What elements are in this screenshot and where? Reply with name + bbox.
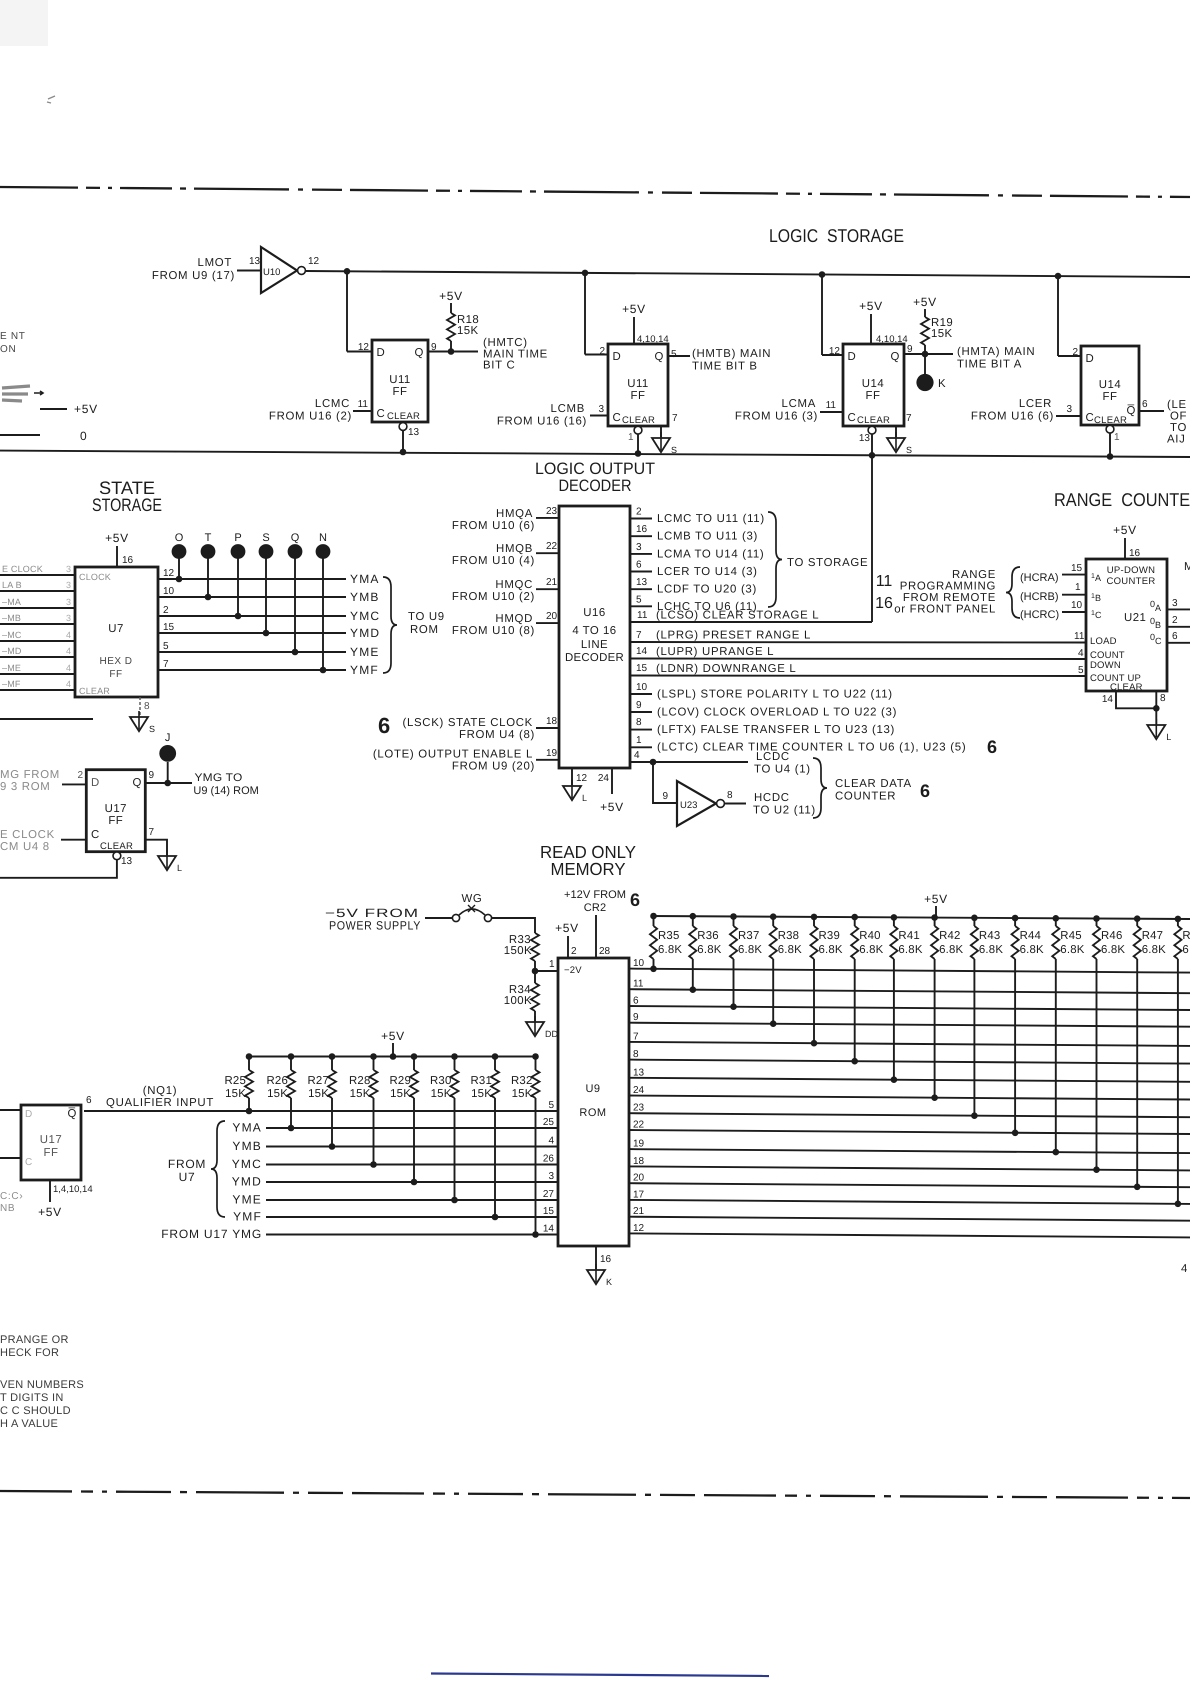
svg-text:LCMA: LCMA bbox=[782, 398, 816, 410]
svg-text:FROM U10 (6): FROM U10 (6) bbox=[452, 520, 535, 532]
svg-text:DD: DD bbox=[545, 1029, 558, 1039]
input HMQD to U16 bbox=[452, 611, 559, 637]
wire U9 output pin 8 bus bbox=[629, 1049, 1190, 1064]
node R33/R34/pin1 junction bbox=[532, 959, 558, 983]
svg-text:18: 18 bbox=[546, 716, 558, 727]
wire YMD from U7 bbox=[158, 622, 380, 640]
svg-text:LINE: LINE bbox=[581, 639, 608, 651]
label -5V FROM POWER SUPPLY bbox=[325, 906, 421, 933]
svg-text:CLEAR: CLEAR bbox=[857, 415, 890, 426]
node R19/Q junction bbox=[922, 351, 929, 358]
U21 clear pins 14/8 to ground L bbox=[1102, 691, 1171, 742]
svg-text:YME: YME bbox=[350, 645, 380, 659]
svg-text:6.8K: 6.8K bbox=[658, 944, 682, 956]
svg-text:H A VALUE: H A VALUE bbox=[0, 1418, 58, 1430]
svg-text:R41: R41 bbox=[898, 930, 920, 942]
svg-text:–MB: –MB bbox=[2, 613, 21, 623]
svg-text:FF: FF bbox=[44, 1147, 59, 1159]
svg-text:R: R bbox=[1182, 930, 1190, 942]
svg-text:17: 17 bbox=[633, 1189, 645, 1200]
svg-text:2: 2 bbox=[636, 507, 642, 518]
label (HMTA) MAIN TIME BIT A bbox=[957, 346, 1035, 371]
svg-text:N: N bbox=[319, 532, 327, 544]
svg-text:4: 4 bbox=[1078, 648, 1084, 659]
svg-text:R47: R47 bbox=[1142, 930, 1164, 942]
input HMQC to U16 bbox=[452, 577, 559, 603]
node U11a D drop bbox=[344, 268, 351, 275]
resistor R41 6.8K bbox=[890, 914, 923, 1083]
wire U17b D input bbox=[0, 1109, 21, 1111]
top border dash-dot rule bbox=[0, 187, 1190, 197]
svg-text:CM U4 8: CM U4 8 bbox=[0, 841, 50, 853]
svg-text:6: 6 bbox=[86, 1095, 92, 1106]
wire YMA into U9 pin 25 bbox=[266, 1117, 558, 1128]
node U14a D drop bbox=[819, 271, 826, 278]
wire U9 output pin 9 bus bbox=[629, 1012, 1190, 1026]
wire YME from U7 bbox=[158, 641, 380, 659]
wire down to U23 input bbox=[653, 762, 677, 803]
svg-text:Q̅: Q̅ bbox=[1126, 404, 1136, 417]
wire YMD into U9 pin 3 bbox=[266, 1171, 558, 1182]
svg-text:16: 16 bbox=[636, 524, 648, 535]
wire NQ1 into U9 pin 5 bbox=[84, 1100, 558, 1111]
svg-text:8: 8 bbox=[636, 717, 642, 728]
svg-text:LMOT: LMOT bbox=[198, 257, 232, 269]
svg-text:15K: 15K bbox=[471, 1088, 492, 1100]
svg-text:U11: U11 bbox=[389, 374, 411, 386]
input (LSCK) STATE CLOCK pin 18 bbox=[378, 713, 559, 741]
svg-text:HMQC: HMQC bbox=[495, 579, 533, 591]
wire U9 output pin 21 bus bbox=[629, 1206, 1190, 1221]
svg-text:LA B: LA B bbox=[2, 580, 22, 590]
svg-text:(HMTC): (HMTC) bbox=[483, 337, 528, 349]
svg-text:WG: WG bbox=[461, 893, 482, 905]
resistor R44 6.8K bbox=[1011, 915, 1044, 1136]
svg-text:D: D bbox=[25, 1109, 33, 1120]
label LCER FROM U16 (6) bbox=[971, 398, 1073, 423]
label (HMTC) MAIN TIME BIT C bbox=[483, 337, 548, 372]
blue underline mark bbox=[431, 1674, 769, 1677]
svg-text:(LDNR) DOWNRANGE L: (LDNR) DOWNRANGE L bbox=[656, 663, 796, 675]
svg-text:YMF: YMF bbox=[350, 663, 379, 677]
test point K (filled circle) bbox=[916, 354, 946, 391]
U7 clear pin 8 with S arrow bbox=[130, 697, 155, 734]
bottom border dash-dot rule bbox=[0, 1491, 1190, 1498]
svg-text:9: 9 bbox=[662, 791, 668, 802]
svg-text:LCDC: LCDC bbox=[756, 751, 790, 763]
input (LOTE) OUTPUT ENABLE L pin 19 bbox=[373, 748, 559, 773]
faded pin numbers U7 bbox=[66, 564, 71, 689]
svg-text:C: C bbox=[377, 408, 386, 420]
svg-text:LCMC: LCMC bbox=[315, 398, 350, 410]
svg-text:1: 1 bbox=[628, 432, 634, 443]
test point J (filled circle) bbox=[159, 732, 176, 783]
svg-text:1: 1 bbox=[1075, 582, 1081, 593]
inverter U10 bbox=[249, 247, 320, 293]
resistor R30 15K bbox=[430, 1053, 459, 1203]
decoder U16 bbox=[559, 506, 630, 768]
svg-text:1: 1 bbox=[636, 735, 642, 746]
output (LDNR) DOWNRANGE L bbox=[630, 663, 1086, 676]
svg-text:A: A bbox=[1155, 603, 1161, 613]
svg-text:13: 13 bbox=[121, 856, 133, 867]
svg-text:T DIGITS IN: T DIGITS IN bbox=[0, 1392, 64, 1404]
svg-text:C: C bbox=[91, 829, 100, 841]
wire U14a Q output bbox=[904, 353, 953, 355]
svg-text:21: 21 bbox=[546, 577, 558, 588]
svg-text:RANGE: RANGE bbox=[952, 569, 996, 581]
pin 13 bubble U11a bbox=[399, 423, 407, 431]
wire U11b Q output bbox=[668, 355, 690, 357]
svg-text:16: 16 bbox=[875, 595, 893, 612]
svg-text:YMA: YMA bbox=[232, 1121, 262, 1135]
svg-text:11: 11 bbox=[826, 400, 837, 411]
brace TO STORAGE bbox=[768, 512, 868, 607]
svg-text:9: 9 bbox=[633, 1012, 639, 1023]
svg-text:10: 10 bbox=[636, 682, 648, 693]
svg-text:6.8K: 6.8K bbox=[1142, 944, 1166, 956]
pin 13 bubble U14b bbox=[1106, 425, 1114, 433]
label +5V stub left bbox=[40, 402, 98, 416]
brace TO U9 ROM bbox=[383, 577, 445, 673]
svg-text:11: 11 bbox=[637, 610, 648, 621]
resistor R46 6.8K bbox=[1093, 915, 1126, 1173]
wire U9 output pin 13 bus bbox=[629, 1067, 1190, 1082]
svg-text:13: 13 bbox=[636, 577, 648, 588]
wire U11a Q output bbox=[428, 351, 478, 353]
svg-text:R26: R26 bbox=[267, 1075, 289, 1087]
svg-text:(LFTX) FALSE TRANSFER L TO U23: (LFTX) FALSE TRANSFER L TO U23 (13) bbox=[657, 724, 895, 736]
wire U17a Q output bbox=[145, 780, 192, 787]
wire U7 input 2 bbox=[0, 590, 75, 592]
svg-text:FROM U16 (2): FROM U16 (2) bbox=[269, 411, 352, 423]
svg-text:15: 15 bbox=[636, 663, 648, 674]
wire U11b clear to net bbox=[637, 434, 639, 453]
svg-text:D: D bbox=[377, 347, 386, 359]
svg-text:2: 2 bbox=[1172, 615, 1178, 626]
resistor R31 15K bbox=[471, 1053, 500, 1220]
svg-text:6: 6 bbox=[987, 737, 997, 757]
svg-text:BIT C: BIT C bbox=[483, 360, 515, 372]
wire U9 output pin 22 bus bbox=[629, 1120, 1190, 1135]
U21 output 0C pin 6 bbox=[1167, 631, 1190, 643]
svg-text:C: C bbox=[848, 412, 857, 424]
svg-text:13: 13 bbox=[859, 433, 871, 444]
wire U7 input 7 bbox=[0, 673, 75, 675]
wire stub from left at U7 clear row bbox=[0, 718, 93, 720]
label (NQ1) QUALIFIER INPUT bbox=[106, 1085, 214, 1109]
svg-text:FF: FF bbox=[866, 390, 881, 402]
svg-text:22: 22 bbox=[546, 541, 558, 552]
svg-text:FROM U4 (8): FROM U4 (8) bbox=[459, 729, 535, 741]
svg-text:6.8K: 6.8K bbox=[1020, 944, 1044, 956]
wire U7 input 1 bbox=[0, 574, 75, 576]
svg-text:(LCOV) CLOCK OVERLOAD L TO U22: (LCOV) CLOCK OVERLOAD L TO U22 (3) bbox=[657, 707, 897, 719]
svg-text:5: 5 bbox=[548, 1100, 554, 1111]
svg-text:3: 3 bbox=[636, 542, 642, 553]
svg-text:5: 5 bbox=[636, 594, 642, 605]
svg-text:15K: 15K bbox=[431, 1088, 452, 1100]
label 0 wire left bbox=[0, 429, 87, 443]
wire U9 output pin 19 bus bbox=[629, 1139, 1190, 1154]
svg-text:YMB: YMB bbox=[232, 1139, 262, 1153]
brace CLEAR DATA COUNTER bbox=[813, 758, 930, 818]
node U11b D drop bbox=[582, 270, 589, 277]
svg-text:15K: 15K bbox=[390, 1088, 411, 1100]
svg-text:CLEAR: CLEAR bbox=[79, 686, 110, 696]
svg-text:+5V: +5V bbox=[1113, 523, 1137, 537]
svg-text:RANGE COUNTER: RANGE COUNTER bbox=[1054, 489, 1190, 510]
wire U7 input 4 bbox=[0, 623, 75, 625]
wire YMC from U7 bbox=[158, 605, 380, 623]
svg-text:+5V: +5V bbox=[859, 299, 883, 313]
svg-text:R42: R42 bbox=[939, 930, 961, 942]
svg-text:(LPRG) PRESET RANGE L: (LPRG) PRESET RANGE L bbox=[656, 630, 811, 642]
resistor R37 6.8K bbox=[730, 913, 763, 1010]
label LCMB FROM U16 (16) bbox=[497, 403, 605, 428]
resistor R26 15K bbox=[267, 1053, 296, 1131]
svg-text:15K: 15K bbox=[512, 1088, 533, 1100]
resistor R33 150K bbox=[504, 933, 539, 961]
svg-text:Q: Q bbox=[414, 347, 424, 359]
svg-text:C: C bbox=[1095, 610, 1102, 620]
input (HCRA) bbox=[1020, 563, 1086, 584]
svg-text:R45: R45 bbox=[1060, 930, 1082, 942]
svg-text:FROM U16 (3): FROM U16 (3) bbox=[735, 411, 818, 423]
svg-text:U11: U11 bbox=[627, 378, 649, 390]
wire U9 output pin 7 bus bbox=[629, 1031, 1190, 1046]
brace HCR inputs bbox=[1006, 567, 1020, 618]
wire YMF from U7 bbox=[158, 659, 379, 677]
output (LCTC) CLEAR TIME COUNTER L bbox=[630, 735, 997, 757]
wire U17a D input bbox=[62, 783, 86, 785]
output LCHC from U16 bbox=[630, 594, 757, 613]
svg-text:C C SHOULD: C C SHOULD bbox=[0, 1405, 71, 1417]
svg-text:PRANGE OR: PRANGE OR bbox=[0, 1334, 69, 1346]
svg-text:E NT: E NT bbox=[0, 331, 26, 342]
svg-text:4: 4 bbox=[548, 1136, 554, 1147]
svg-text:16: 16 bbox=[1129, 548, 1141, 559]
svg-text:15: 15 bbox=[163, 622, 175, 633]
resistor R36 6.8K bbox=[689, 913, 722, 993]
svg-text:FF: FF bbox=[393, 386, 408, 398]
pin 7 S arrow U11b bbox=[652, 413, 678, 455]
output (LFTX) FALSE TRANSFER L bbox=[630, 717, 895, 736]
svg-text:FF: FF bbox=[108, 815, 123, 827]
svg-text:3: 3 bbox=[598, 404, 604, 415]
+5V rail for R35-R48 bbox=[651, 892, 1190, 919]
node Q (state dot) bbox=[288, 532, 303, 655]
output LCMC from U16 bbox=[630, 507, 765, 526]
svg-text:ROM: ROM bbox=[579, 1107, 606, 1119]
wire U7 input 3 bbox=[0, 607, 75, 609]
svg-text:(LSPL) STORE POLARITY L TO U22: (LSPL) STORE POLARITY L TO U22 (11) bbox=[657, 689, 893, 701]
wire U9 output pin 12 bus bbox=[629, 1223, 1190, 1238]
svg-text:TO: TO bbox=[1170, 422, 1187, 434]
svg-text:CLEAR: CLEAR bbox=[1094, 415, 1127, 426]
svg-text:–MA: –MA bbox=[2, 597, 21, 607]
svg-text:R31: R31 bbox=[471, 1075, 493, 1087]
svg-text:LCDF TO U20 (3): LCDF TO U20 (3) bbox=[657, 584, 757, 596]
svg-text:12: 12 bbox=[633, 1223, 645, 1234]
node R18/Q junction bbox=[448, 348, 455, 355]
svg-text:CLEAR: CLEAR bbox=[622, 415, 655, 426]
svg-text:4,10,14: 4,10,14 bbox=[876, 334, 908, 345]
svg-text:LCMC TO U11 (11): LCMC TO U11 (11) bbox=[657, 513, 765, 525]
svg-text:U23: U23 bbox=[680, 800, 697, 811]
svg-text:U9 (14) ROM: U9 (14) ROM bbox=[193, 785, 258, 797]
svg-text:22: 22 bbox=[633, 1120, 645, 1131]
svg-text:J: J bbox=[165, 732, 171, 744]
svg-text:–ME: –ME bbox=[2, 663, 21, 673]
U16 pin 24 +5V bbox=[598, 768, 624, 814]
svg-text:ON: ON bbox=[0, 344, 16, 355]
svg-text:C: C bbox=[25, 1157, 33, 1168]
label (HMTB) MAIN TIME BIT B bbox=[692, 348, 771, 373]
svg-text:D: D bbox=[848, 351, 857, 363]
resistor R38 6.8K bbox=[770, 913, 803, 1027]
svg-text:Q: Q bbox=[132, 777, 142, 789]
svg-text:(HCRA): (HCRA) bbox=[1020, 572, 1059, 584]
output LCDF from U16 bbox=[630, 577, 757, 596]
wire U9 output pin 11 bus bbox=[629, 979, 1190, 994]
up-down counter U21 bbox=[1086, 559, 1167, 693]
label FROM U7 with brace bbox=[168, 1121, 225, 1217]
svg-text:18: 18 bbox=[633, 1156, 645, 1167]
svg-text:R43: R43 bbox=[979, 930, 1001, 942]
label (LE OF TO AIJ cut at edge bbox=[1167, 399, 1187, 446]
svg-text:T: T bbox=[205, 532, 212, 544]
svg-text:+5V: +5V bbox=[600, 800, 624, 814]
svg-text:9 3 ROM: 9 3 ROM bbox=[0, 781, 50, 793]
svg-text:2: 2 bbox=[77, 770, 83, 781]
input HMQB to U16 bbox=[452, 541, 559, 567]
svg-text:15K: 15K bbox=[267, 1088, 288, 1100]
svg-text:6: 6 bbox=[633, 996, 639, 1007]
svg-text:YME: YME bbox=[232, 1193, 262, 1207]
svg-text:B: B bbox=[1095, 593, 1101, 603]
wire YMG into U9 pin 14 bbox=[266, 1224, 558, 1235]
svg-text:6.8K: 6.8K bbox=[939, 944, 963, 956]
svg-text:6: 6 bbox=[630, 890, 640, 910]
svg-text:100K: 100K bbox=[504, 995, 532, 1007]
pin 13 bubble U14a bbox=[868, 426, 876, 434]
pin 13 bubble U11b bbox=[634, 426, 642, 434]
U17a pin 13 bubble bbox=[0, 852, 133, 878]
svg-text:4 TO 16: 4 TO 16 bbox=[572, 625, 616, 637]
svg-text:YMC: YMC bbox=[350, 609, 380, 623]
wire U9 output pin 18 bus bbox=[629, 1156, 1190, 1171]
svg-text:13: 13 bbox=[408, 427, 420, 438]
svg-text:FROM U10 (8): FROM U10 (8) bbox=[452, 625, 535, 637]
flip-flop U11 (second) bbox=[599, 344, 677, 426]
wire lower storage net (full width) bbox=[0, 451, 1190, 457]
input (HCRC) bbox=[1020, 600, 1086, 621]
svg-text:DECODER: DECODER bbox=[559, 477, 632, 495]
svg-text:TIME BIT A: TIME BIT A bbox=[957, 359, 1022, 371]
resistor R40 6.8K bbox=[851, 914, 884, 1065]
svg-text:O: O bbox=[175, 532, 184, 544]
svg-text:16: 16 bbox=[600, 1254, 612, 1265]
input (HCRB) bbox=[1020, 582, 1086, 603]
svg-text:4,10,14: 4,10,14 bbox=[637, 334, 669, 345]
svg-text:LOAD: LOAD bbox=[1090, 636, 1117, 647]
wire U9 output pin 23 bus bbox=[629, 1103, 1190, 1118]
svg-text:3: 3 bbox=[1172, 598, 1178, 609]
wire YMA from U7 bbox=[158, 568, 380, 586]
svg-text:13: 13 bbox=[633, 1067, 645, 1078]
svg-text:UP-DOWN: UP-DOWN bbox=[1107, 565, 1156, 576]
svg-text:20: 20 bbox=[633, 1173, 645, 1184]
output (LCSO) CLEAR STORAGE L bbox=[630, 610, 872, 623]
svg-text:24: 24 bbox=[633, 1085, 645, 1096]
label LMOT FROM U9 (17) bbox=[152, 257, 235, 282]
svg-text:CLEAR: CLEAR bbox=[100, 841, 133, 852]
ROM U9 bbox=[558, 958, 629, 1246]
svg-text:(LE: (LE bbox=[1167, 399, 1187, 411]
svg-text:YMB: YMB bbox=[350, 590, 380, 604]
svg-text:or FRONT PANEL: or FRONT PANEL bbox=[894, 604, 996, 616]
svg-text:−2V: −2V bbox=[564, 965, 582, 976]
svg-text:10: 10 bbox=[163, 586, 175, 597]
+5V pins 4,10,14 U11b bbox=[622, 302, 669, 345]
svg-text:3: 3 bbox=[66, 580, 71, 590]
resistor R25 15K bbox=[225, 1053, 254, 1114]
svg-text:12: 12 bbox=[163, 568, 175, 579]
wire U14b clear to net bbox=[1109, 433, 1111, 456]
svg-text:5: 5 bbox=[1078, 665, 1084, 676]
svg-text:LCER TO U14 (3): LCER TO U14 (3) bbox=[657, 566, 758, 578]
flip-flop U17 (lower) bbox=[21, 1095, 92, 1180]
svg-text:3: 3 bbox=[66, 564, 71, 574]
resistor R27 15K bbox=[308, 1053, 337, 1150]
svg-text:23: 23 bbox=[546, 506, 558, 517]
wire U17b C input bbox=[0, 1157, 21, 1159]
svg-text:11: 11 bbox=[358, 399, 369, 410]
svg-text:R25: R25 bbox=[225, 1075, 247, 1087]
svg-text:14: 14 bbox=[636, 646, 648, 657]
label RANGE PROGRAMMING FROM REMOTE or FRONT PANEL bbox=[894, 569, 996, 616]
svg-text:7: 7 bbox=[906, 413, 912, 424]
svg-text:R37: R37 bbox=[738, 930, 760, 942]
U17a pin 7 to ground L bbox=[145, 827, 182, 873]
svg-text:U16: U16 bbox=[583, 607, 605, 619]
svg-text:14: 14 bbox=[543, 1224, 555, 1235]
svg-text:5: 5 bbox=[671, 349, 677, 360]
faded note EVEN NUMBERS ... VALUE bbox=[0, 1379, 84, 1430]
svg-text:FROM: FROM bbox=[168, 1157, 206, 1171]
output (LPRG) PRESET RANGE L bbox=[630, 630, 1086, 643]
svg-text:R36: R36 bbox=[697, 930, 719, 942]
svg-text:R46: R46 bbox=[1101, 930, 1123, 942]
svg-text:C:C›: C:C› bbox=[0, 1191, 23, 1202]
svg-text:20: 20 bbox=[546, 611, 558, 622]
svg-text:U17: U17 bbox=[105, 803, 127, 815]
title STATE STORAGE bbox=[92, 478, 162, 515]
svg-text:15K: 15K bbox=[308, 1088, 329, 1100]
svg-text:E CLOCK: E CLOCK bbox=[0, 829, 55, 841]
svg-text:6.8K: 6.8K bbox=[1101, 944, 1125, 956]
svg-text:27: 27 bbox=[543, 1189, 555, 1200]
svg-text:YMD: YMD bbox=[350, 626, 380, 640]
svg-text:19: 19 bbox=[546, 748, 558, 759]
wire U11b D input bbox=[585, 354, 608, 356]
svg-text:9: 9 bbox=[636, 700, 642, 711]
resistor R47 6.8K bbox=[1134, 915, 1167, 1190]
resistor R32 15K bbox=[511, 1053, 540, 1238]
pin 7 S arrow U14a bbox=[887, 413, 912, 455]
wire U14b C input bbox=[1056, 415, 1081, 417]
